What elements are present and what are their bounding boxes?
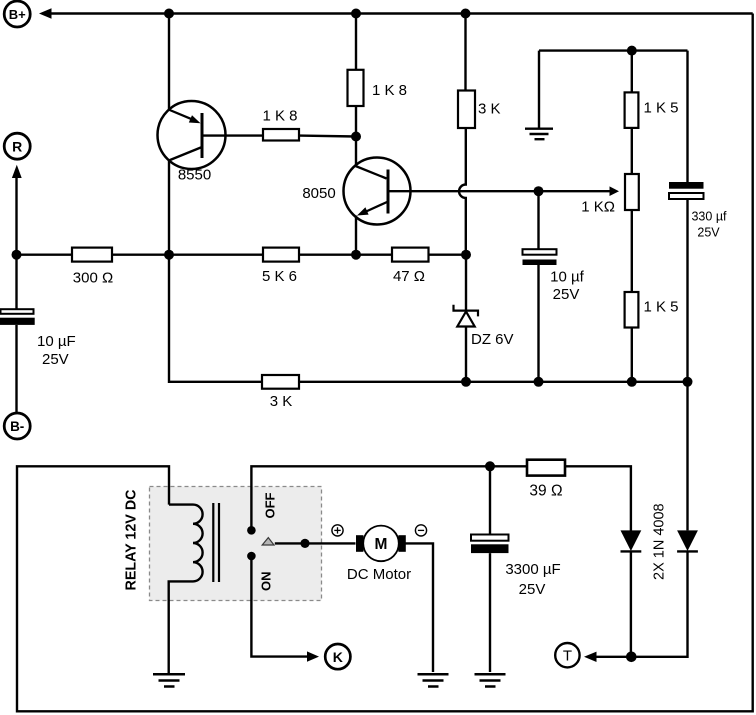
polarity mark minus	[415, 525, 426, 536]
svg-text:25V: 25V	[697, 226, 720, 240]
svg-text:B+: B+	[9, 7, 26, 22]
transistor Q1 8550	[158, 101, 226, 184]
svg-text:47 Ω: 47 Ω	[393, 268, 425, 285]
wire to 1K5 upper	[631, 51, 633, 93]
wire potentiometer to 1K5 lower	[631, 210, 633, 292]
ground (top right)	[525, 129, 553, 140]
node 8050 emitter / 5K6 / 47 ohm	[351, 250, 361, 260]
wire D1 to T line	[630, 551, 632, 656]
node collector/300ohm/5K6	[164, 250, 174, 260]
relay enclosure dashed box	[150, 487, 322, 601]
node top rail / 1K8 column	[351, 9, 361, 19]
wire D2 column down and T line	[596, 551, 688, 656]
ground (motor)	[418, 674, 449, 686]
terminal T	[555, 643, 579, 667]
svg-text:25V: 25V	[553, 286, 580, 303]
wire 1K8 vertical to node	[355, 106, 357, 137]
svg-text:5 K 6: 5 K 6	[262, 268, 297, 285]
node top rail / 3K column	[461, 9, 471, 19]
capacitor 3300uF 25V	[471, 535, 561, 599]
wire motor to ground	[406, 543, 434, 672]
capacitor 10uF 25V (left)	[0, 309, 76, 368]
svg-text:1 KΩ: 1 KΩ	[581, 199, 615, 216]
wire 330uf column top	[686, 51, 688, 182]
diode D2 1N4008	[677, 530, 698, 551]
wire 1K8 to node	[299, 134, 356, 137]
wire 330uf to bottom rail	[686, 199, 688, 382]
motor M1 DC Motor	[347, 526, 411, 583]
svg-text:330 µf: 330 µf	[691, 210, 727, 224]
wire 3K column with hop over base lead	[459, 14, 466, 255]
svg-text:3 K: 3 K	[478, 101, 501, 118]
contact ON dot	[247, 552, 256, 561]
capacitor 330uf 25V	[669, 182, 727, 240]
node base lead / 10uf cap	[534, 186, 544, 196]
wire zener to bottom rail	[465, 327, 467, 382]
svg-text:K: K	[333, 649, 343, 665]
svg-text:OFF: OFF	[263, 492, 278, 518]
contact OFF dot	[247, 526, 256, 535]
zener diode DZ 6V	[454, 305, 514, 348]
terminal K	[325, 644, 350, 669]
svg-text:M: M	[375, 536, 388, 553]
resistor 3K horizontal	[262, 375, 299, 410]
wire 3300uF to ground	[489, 553, 491, 672]
node T line / D1	[626, 652, 637, 663]
svg-text:300 Ω: 300 Ω	[73, 270, 113, 287]
wire 10uf to bottom rail	[537, 265, 539, 382]
svg-text:RELAY 12V DC: RELAY 12V DC	[123, 489, 140, 590]
svg-text:B-: B-	[10, 419, 24, 434]
arrow into terminal T	[584, 652, 597, 662]
node rail/1K5	[627, 377, 637, 387]
wire left rail to 300 ohm	[17, 253, 73, 255]
terminal B-	[4, 413, 30, 439]
wire top-right horizontal (ground to 330uf column)	[539, 51, 688, 129]
node 39ohm / 3300uF	[485, 461, 495, 471]
resistor 1K5 lower	[625, 292, 679, 328]
wire top rail down to 8550 emitter	[168, 14, 170, 111]
resistor 1K8 vertical	[348, 70, 408, 106]
svg-text:ON: ON	[259, 572, 274, 592]
wire 8050 base lead to potentiometer	[390, 190, 611, 192]
svg-text:25V: 25V	[42, 351, 69, 368]
resistor 3K vertical	[458, 91, 501, 129]
node R / 300 ohm	[12, 250, 22, 260]
diode D1 1N4008	[621, 530, 642, 551]
node rail/10uf	[534, 377, 544, 387]
node zener top	[461, 250, 471, 260]
svg-text:1 K 5: 1 K 5	[644, 100, 679, 117]
svg-text:1 K 8: 1 K 8	[372, 82, 407, 99]
node 1K8/8050 collector	[351, 132, 361, 142]
wire armature common to motor	[275, 542, 356, 544]
wire 8050 emitter down to node	[355, 216, 357, 255]
node rail/330uf column	[683, 377, 693, 387]
wire 300 ohm to node	[112, 253, 169, 255]
wire 1K5 to potentiometer	[631, 128, 633, 174]
wire node to 5K6	[169, 253, 356, 255]
transistor Q2 8050	[302, 158, 410, 225]
svg-text:8550: 8550	[178, 167, 211, 184]
wire 3300uF column	[489, 466, 491, 534]
svg-text:DC Motor: DC Motor	[347, 566, 411, 583]
resistor 47 ohm	[392, 248, 429, 285]
svg-text:8050: 8050	[302, 185, 335, 202]
wire OFF contact feed to diode branch	[251, 466, 631, 530]
ground (relay coil)	[153, 674, 185, 686]
svg-text:10 µF: 10 µF	[37, 333, 76, 350]
resistor 300 ohm	[72, 248, 113, 287]
wire bottom rail to diode D2	[686, 382, 688, 531]
svg-text:10 µf: 10 µf	[550, 269, 584, 286]
svg-text:2X 1N 4008: 2X 1N 4008	[652, 503, 668, 580]
svg-text:T: T	[563, 648, 572, 665]
svg-text:DZ 6V: DZ 6V	[471, 331, 514, 348]
node rail/zener	[461, 377, 471, 387]
wire 8550 base lead	[204, 134, 264, 136]
svg-text:3300 µF: 3300 µF	[505, 561, 560, 578]
capacitor 10uf 25V (middle)	[523, 249, 585, 303]
node armature wire	[300, 539, 309, 548]
resistor 5K6	[262, 248, 299, 285]
wire capacitor to B-	[15, 325, 17, 412]
relay coil K1	[169, 505, 203, 673]
node top rail / 8550 emitter column	[164, 9, 174, 19]
svg-text:25V: 25V	[519, 581, 546, 598]
wire node to 47 ohm to zener node	[356, 253, 466, 255]
potentiometer 1K ohm	[581, 174, 639, 216]
wire node down to bottom rail corner	[169, 255, 262, 382]
wire node to capacitor C1	[15, 255, 17, 309]
relay armature wiper triangle	[262, 538, 274, 545]
wire node down to 8050 collector	[355, 137, 357, 167]
node top-right / 1K5 column	[627, 46, 637, 56]
wire ON contact to terminal K	[251, 556, 319, 662]
svg-text:1 K 8: 1 K 8	[262, 108, 297, 125]
relay core lines	[213, 503, 219, 582]
bottom rail wire	[299, 381, 688, 383]
wire 1K5 lower to bottom rail	[631, 328, 633, 382]
ground (3300uF)	[475, 674, 506, 686]
svg-text:1 K 5: 1 K 5	[644, 299, 679, 316]
wire top rail down to 1K8 vertical	[355, 14, 357, 70]
wire 10uf cap column	[537, 191, 539, 249]
wire 8550 collector column down to node	[168, 161, 170, 255]
wire node down to zener	[465, 255, 467, 311]
terminal B+	[4, 1, 30, 27]
resistor 1K8 horizontal	[262, 108, 299, 141]
wire R arrow up to node	[12, 165, 22, 255]
terminal R	[4, 133, 30, 159]
svg-text:39 Ω: 39 Ω	[529, 483, 562, 500]
svg-text:3 K: 3 K	[270, 393, 293, 410]
wire B+ top rail with arrow into B+	[39, 8, 753, 18]
resistor 39 ohm	[527, 460, 565, 500]
resistor 1K5 upper	[625, 92, 679, 128]
svg-text:R: R	[12, 138, 22, 154]
polarity mark plus	[332, 525, 343, 536]
